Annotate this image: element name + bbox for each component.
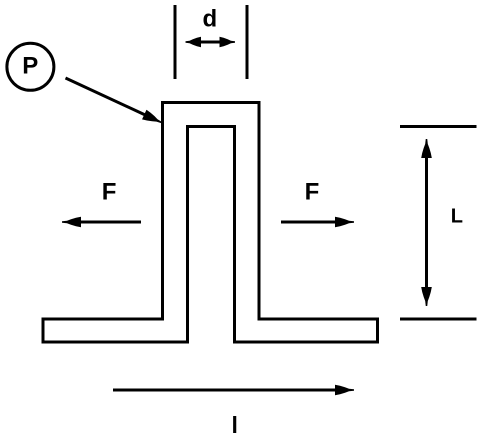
dimension extension line top (L) bbox=[400, 125, 477, 128]
dimension extension line bottom (L) bbox=[400, 318, 477, 321]
dimension arrow L (double-headed vertical) bbox=[421, 139, 432, 306]
force arrow F right bbox=[281, 217, 354, 228]
svg-text:d: d bbox=[202, 5, 217, 32]
svg-text:L: L bbox=[451, 205, 463, 227]
leader arrow from P to conductor bbox=[66, 78, 162, 123]
svg-text:l: l bbox=[231, 412, 237, 438]
svg-text:F: F bbox=[305, 178, 320, 205]
current arrow l (bottom) bbox=[113, 385, 354, 396]
dimension arrow d (double-headed) bbox=[186, 37, 236, 48]
force arrow F left bbox=[62, 217, 141, 228]
dimension extension line right (d) bbox=[246, 5, 249, 79]
svg-text:F: F bbox=[102, 178, 117, 205]
dimension extension line left (d) bbox=[174, 5, 177, 79]
node P circle bbox=[7, 43, 54, 90]
svg-text:P: P bbox=[22, 53, 38, 80]
folded conductor outline bbox=[43, 103, 378, 343]
